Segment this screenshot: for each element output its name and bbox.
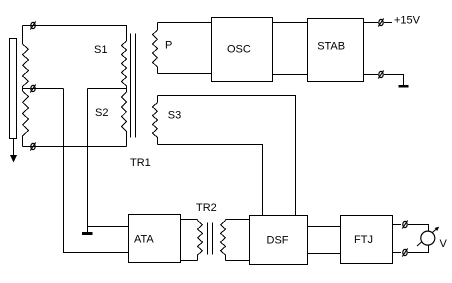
- wire bottom terminal to voltmeter: [408, 245, 429, 253]
- terminal mid-left (tap): [30, 84, 35, 92]
- terminal +15V: [378, 18, 383, 26]
- wire FTJ to bottom output terminal: [393, 252, 402, 254]
- wire top (terminal to S1): [23, 26, 127, 42]
- wire vertical x63 down to ATA lower input: [64, 89, 129, 253]
- wire STAB to ground terminal: [364, 74, 379, 76]
- wire TR2 secondary to DSF bottom: [226, 260, 250, 262]
- winding L upper section: [23, 26, 29, 89]
- winding S3: [153, 96, 158, 145]
- wire S3 bottom to DSF: [158, 145, 263, 216]
- voltmeter V1: [421, 231, 435, 245]
- transformer TR1 core: [131, 34, 136, 138]
- terminal bottom-left: [30, 142, 35, 150]
- wire S3 top to DSF: [158, 96, 296, 216]
- wire tap to corner x63: [23, 88, 64, 90]
- svg-text:+15V: +15V: [394, 14, 421, 26]
- wire ATA to TR2 primary top: [181, 219, 198, 221]
- terminal output bottom: [402, 248, 407, 256]
- svg-text:S3: S3: [168, 109, 181, 121]
- wire bottom (terminal to S2 bottom): [23, 146, 127, 148]
- block FTJ: [341, 216, 393, 264]
- winding P: [153, 23, 158, 74]
- winding S1: [122, 41, 127, 89]
- wire TR2 secondary to DSF top: [226, 219, 250, 221]
- electrode bar (left plate): [10, 39, 17, 139]
- svg-text:FTJ: FTJ: [354, 234, 373, 246]
- wire P top to OSC: [158, 22, 212, 24]
- ground bar right: [399, 85, 409, 88]
- block OSC: [212, 18, 273, 82]
- down arrow under electrode: [10, 139, 17, 163]
- winding TR2 secondary: [221, 220, 226, 261]
- block DSF: [250, 216, 308, 265]
- wire FTJ to top output terminal: [393, 224, 402, 226]
- terminal top-left: [30, 21, 35, 29]
- block ATA: [129, 215, 181, 263]
- wire vertical x87 down to ground: [87, 89, 89, 233]
- voltmeter needle: [417, 227, 439, 246]
- svg-text:ATA: ATA: [134, 234, 154, 246]
- terminal output top: [402, 220, 407, 228]
- wire terminal to ground: [384, 75, 404, 86]
- block STAB: [308, 19, 364, 82]
- wire OSC to STAB top: [273, 22, 308, 24]
- winding TR2 primary: [198, 220, 203, 261]
- wire after +15V terminal: [384, 22, 392, 24]
- svg-text:TR2: TR2: [196, 202, 217, 214]
- svg-text:TR1: TR1: [130, 157, 151, 169]
- wire DSF to FTJ top: [308, 226, 341, 228]
- svg-text:DSF: DSF: [267, 234, 289, 246]
- winding L lower section: [23, 89, 29, 147]
- winding S2: [122, 89, 127, 147]
- svg-text:S2: S2: [95, 107, 108, 119]
- terminal ground right: [378, 70, 383, 78]
- svg-text:S1: S1: [94, 44, 107, 56]
- ground bar left: [82, 232, 93, 235]
- svg-text:V: V: [440, 238, 448, 250]
- transformer TR2 core: [208, 223, 213, 255]
- wire OSC to STAB bottom: [273, 74, 308, 76]
- svg-text:OSC: OSC: [227, 43, 251, 55]
- wire branch to ATA upper input: [88, 226, 129, 228]
- svg-text:P: P: [165, 40, 172, 52]
- wire DSF to FTJ bottom: [308, 253, 341, 255]
- svg-text:STAB: STAB: [317, 40, 345, 52]
- wire P bottom to OSC: [158, 73, 212, 75]
- wire STAB to +15V terminal: [364, 22, 379, 24]
- wire top terminal to voltmeter: [408, 225, 429, 232]
- wire ATA to TR2 primary bottom: [181, 260, 198, 262]
- wire S1/S2 junction to corner x87: [88, 88, 127, 90]
